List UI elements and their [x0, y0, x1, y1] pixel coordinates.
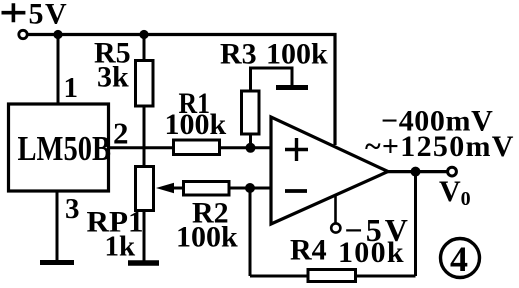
wiper arrow of RP1 [156, 183, 174, 193]
svg-text:5V: 5V [29, 0, 69, 31]
svg-text:R4: R4 [290, 234, 327, 267]
wire pin 1 [57, 35, 60, 104]
output terminal Vo [448, 167, 457, 176]
node output junction [411, 167, 421, 177]
svg-text:100k: 100k [266, 38, 328, 71]
wire feedback bottom [250, 275, 416, 278]
op-amp triangle [271, 117, 388, 224]
figure number 4 circle [441, 239, 480, 278]
wire pin 2 to R1 [108, 146, 174, 149]
resistor R5 [136, 61, 154, 107]
wire op-amp output [386, 170, 447, 173]
wire R5 top lead [143, 35, 146, 62]
potentiometer RP1 body [136, 167, 154, 211]
+5V terminal [19, 30, 27, 38]
wire R1 to op-amp plus input [220, 146, 273, 149]
wire op-amp V- pin [334, 196, 337, 223]
wire pin 3 [56, 191, 59, 262]
wire wiper to R2 [166, 187, 184, 190]
wire feedback right vertical [414, 172, 417, 276]
svg-text:LM50B: LM50B [18, 129, 112, 168]
op-amp minus sign [285, 189, 307, 193]
svg-text:100k: 100k [165, 108, 227, 141]
label +5V plus sign [2, 3, 26, 22]
svg-text:~+1250mV: ~+1250mV [365, 130, 515, 163]
wire R3 top to ground [251, 68, 293, 92]
wire R3 bottom lead [249, 134, 252, 148]
svg-text:100k: 100k [176, 221, 238, 254]
resistor R1 [174, 140, 220, 155]
ground (RP1) [128, 260, 159, 266]
svg-text:R3: R3 [220, 38, 257, 71]
wire R5 bottom lead to RP1 [143, 106, 146, 167]
IC LM50B box [9, 104, 109, 191]
svg-text:1k: 1k [105, 231, 137, 263]
node junction R5/rail [139, 30, 148, 39]
ground (R3) [276, 85, 308, 90]
node junction pin1/rail [53, 30, 62, 39]
wire RP1 bottom lead [143, 210, 146, 261]
svg-text:3: 3 [65, 193, 80, 225]
node plus-input junction [246, 143, 256, 153]
svg-text:100k: 100k [338, 236, 405, 269]
svg-text:2: 2 [113, 116, 129, 151]
node minus-input junction [245, 183, 255, 193]
svg-text:3k: 3k [97, 61, 129, 94]
op-amp plus sign [285, 138, 308, 161]
resistor R2 [184, 182, 230, 196]
svg-text:4: 4 [450, 239, 468, 279]
wire feedback left vertical [249, 188, 252, 276]
-5V terminal [331, 223, 340, 232]
svg-text:1: 1 [64, 72, 79, 104]
ground LM50B pin3 [40, 260, 74, 265]
resistor R4 [308, 270, 356, 282]
resistor R3 [242, 91, 260, 134]
wire +5V rail [28, 35, 336, 146]
wire R2 to op-amp minus input [229, 187, 272, 190]
